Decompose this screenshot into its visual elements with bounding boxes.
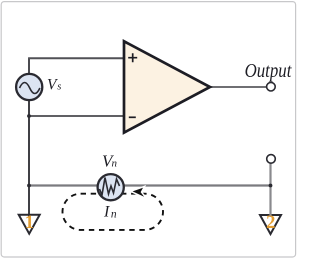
wire: op-amp output (210, 86, 267, 88)
node: junction at noise line right (269, 184, 273, 188)
output terminal (267, 82, 276, 91)
wire: left vertical from Vs bottom to ground 1 (28, 101, 30, 217)
svg-text:Output: Output (245, 60, 293, 82)
sine symbol (20, 83, 40, 94)
ground 2 (260, 215, 281, 234)
op-amp U1 (124, 41, 210, 132)
wire: bottom noise line (29, 184, 271, 186)
svg-text:2: 2 (266, 213, 275, 233)
wire: right vertical terminal to ground 2 (269, 163, 271, 217)
wire: top horizontal to op-amp + input (28, 57, 124, 59)
wire: junction to op-amp - input (29, 115, 124, 117)
wire: Vs top vertical stub (28, 58, 30, 74)
node: junction at noise line left (27, 184, 31, 188)
svg-text:1: 1 (25, 213, 34, 233)
noise waveform symbol (100, 178, 120, 196)
pin + (non-inverting input) (128, 53, 137, 62)
pin - (inverting input) (129, 116, 136, 118)
noise voltage source Vn (98, 174, 124, 200)
node: junction at inverting input (27, 114, 31, 118)
voltage source Vs (16, 74, 42, 100)
right upper terminal (267, 155, 276, 164)
ground 1 (19, 215, 40, 234)
dashed current loop (63, 194, 164, 230)
loop arrowhead (133, 188, 145, 197)
